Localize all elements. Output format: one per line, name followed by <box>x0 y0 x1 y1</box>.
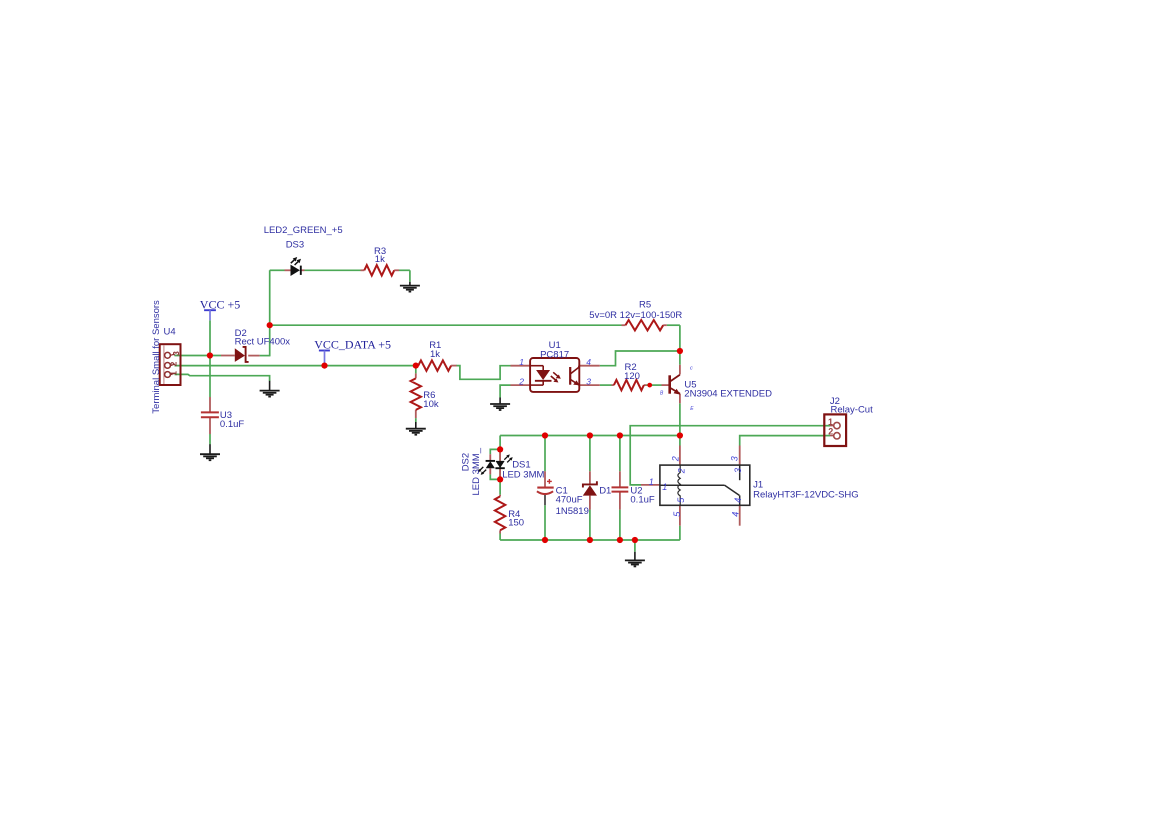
svg-text:Terminal Small for Sensors: Terminal Small for Sensors <box>151 300 162 414</box>
svg-text:4: 4 <box>733 498 743 503</box>
svg-text:3: 3 <box>733 468 743 473</box>
svg-text:2: 2 <box>671 456 681 462</box>
svg-text:2N3904 EXTENDED: 2N3904 EXTENDED <box>684 388 772 399</box>
svg-text:470uF: 470uF <box>556 494 583 505</box>
svg-text:2: 2 <box>676 468 686 474</box>
svg-text:1: 1 <box>662 482 667 492</box>
svg-text:LED 3MM: LED 3MM <box>502 470 544 481</box>
svg-text:3: 3 <box>171 351 181 356</box>
svg-text:1: 1 <box>519 357 524 367</box>
svg-text:Rect UF400x: Rect UF400x <box>235 337 291 348</box>
svg-text:U4: U4 <box>164 327 176 338</box>
svg-text:3: 3 <box>586 376 591 386</box>
svg-text:LED2_GREEN_+5: LED2_GREEN_+5 <box>264 225 343 236</box>
svg-text:PC817: PC817 <box>540 349 569 360</box>
svg-text:10k: 10k <box>423 399 439 410</box>
svg-text:LED 3MM_: LED 3MM_ <box>471 447 482 495</box>
svg-text:120: 120 <box>624 371 640 382</box>
svg-text:1: 1 <box>649 477 654 487</box>
svg-text:4: 4 <box>586 357 591 367</box>
svg-text:1k: 1k <box>430 349 440 360</box>
svg-text:0.1uF: 0.1uF <box>630 494 654 505</box>
svg-text:3: 3 <box>730 456 740 461</box>
svg-text:1k: 1k <box>375 254 385 265</box>
svg-text:4: 4 <box>730 512 740 517</box>
svg-text:0.1uF: 0.1uF <box>220 419 244 430</box>
svg-text:VCC +5: VCC +5 <box>200 297 240 311</box>
svg-text:150: 150 <box>508 518 524 529</box>
svg-text:RelayHT3F-12VDC-SHG: RelayHT3F-12VDC-SHG <box>753 490 859 501</box>
svg-text:2: 2 <box>168 361 178 366</box>
svg-text:1: 1 <box>828 417 833 427</box>
svg-text:VCC_DATA +5: VCC_DATA +5 <box>314 337 391 351</box>
svg-text:D1: D1 <box>599 485 611 496</box>
svg-text:R5: R5 <box>639 300 651 311</box>
svg-text:5v=0R 12v=100-150R: 5v=0R 12v=100-150R <box>589 310 682 321</box>
svg-text:c: c <box>690 365 693 371</box>
svg-text:2: 2 <box>828 426 833 436</box>
svg-text:1: 1 <box>168 371 178 376</box>
svg-text:DS2: DS2 <box>461 453 472 471</box>
svg-text:2: 2 <box>518 376 524 386</box>
svg-text:1N5819: 1N5819 <box>556 506 589 517</box>
svg-text:DS3: DS3 <box>286 239 304 250</box>
svg-text:Relay-Cut: Relay-Cut <box>831 405 874 416</box>
